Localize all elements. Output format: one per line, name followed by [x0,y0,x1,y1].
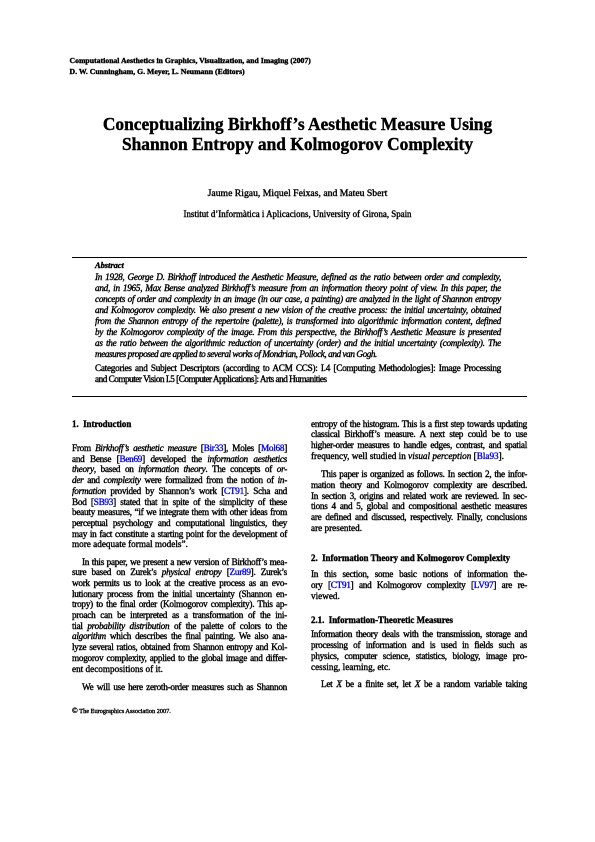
rule above abstract [72,256,528,259]
subsection heading 2.1 [311,615,453,626]
rule below abstract block [72,395,528,398]
paragraph 2 [72,557,287,675]
categories [95,363,501,385]
Abstract heading [95,261,124,271]
authors [70,189,525,200]
paragraph 3 (first line) [72,682,287,693]
paragraph E (first line) [311,679,527,690]
running head line 1 [70,56,311,77]
paragraph B [311,469,527,533]
section heading 1 [72,419,131,430]
abstract body [95,272,501,360]
paragraph A [311,419,527,462]
paragraph D [311,629,527,672]
paragraph 1 [72,443,287,550]
title [70,114,525,155]
footer [72,706,171,716]
affiliation [70,209,525,220]
section heading 2 [311,553,510,564]
paragraph C [311,569,527,601]
